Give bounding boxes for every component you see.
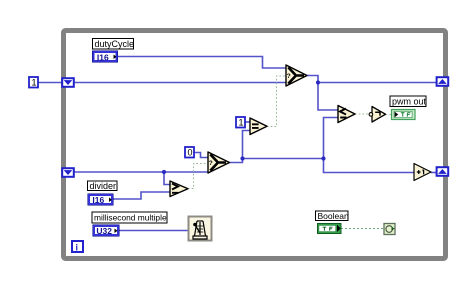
svg-text:U32: U32 (96, 226, 112, 236)
svg-text:1: 1 (239, 118, 244, 128)
svg-text:1: 1 (32, 78, 37, 88)
svg-text:?: ? (287, 73, 291, 80)
svg-text:0: 0 (188, 148, 193, 158)
svg-text:divider: divider (90, 181, 117, 191)
svg-text:?: ? (209, 160, 213, 167)
svg-text:Boolean: Boolean (318, 211, 349, 221)
svg-text:millisecond multiple: millisecond multiple (94, 213, 167, 223)
svg-text:I16: I16 (97, 52, 109, 62)
svg-text:I16: I16 (92, 195, 104, 205)
svg-text:dutyCycle: dutyCycle (95, 39, 135, 49)
svg-text:pwm out: pwm out (392, 97, 427, 107)
svg-text:i: i (76, 243, 79, 253)
